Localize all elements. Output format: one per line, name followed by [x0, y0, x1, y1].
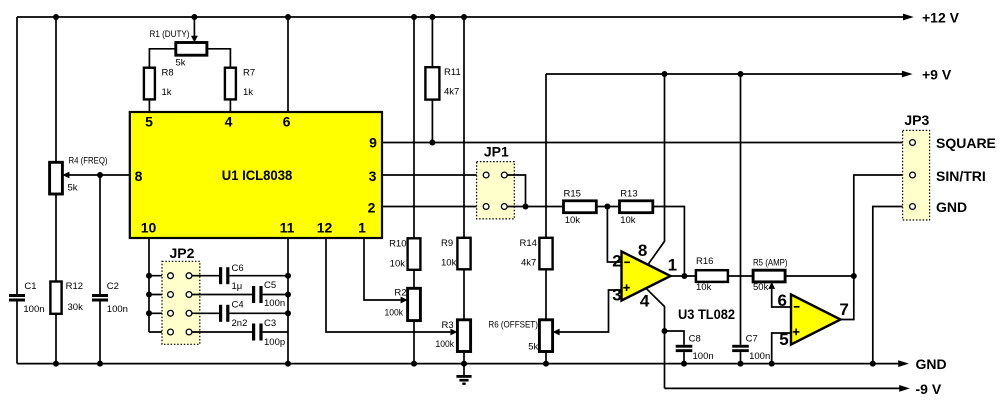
svg-text:2: 2: [368, 199, 376, 215]
svg-text:C7: C7: [746, 334, 758, 345]
node GND R4 junction: [53, 361, 59, 367]
svg-text:C5: C5: [264, 280, 276, 291]
capacitor C7: [732, 345, 749, 348]
wire +9V down to R14 (crosses R15 line): [545, 74, 547, 238]
wire R1 wiper column from +12V: [193, 17, 195, 37]
svg-text:1μ: 1μ: [232, 281, 243, 292]
svg-text:GND: GND: [916, 356, 947, 372]
svg-text:6: 6: [283, 114, 291, 130]
wire R8 to IC pin 5: [148, 99, 150, 112]
wire JP2 row4 left stub: [149, 331, 168, 333]
node pin11 row1: [285, 273, 291, 279]
svg-text:9: 9: [369, 135, 377, 151]
svg-text:10: 10: [141, 219, 157, 235]
svg-text:U1 ICL8038: U1 ICL8038: [222, 167, 293, 183]
svg-text:R12: R12: [66, 281, 83, 292]
svg-text:100n: 100n: [749, 351, 770, 362]
wire +12V to IC pin 6: [287, 17, 289, 112]
svg-text:10k: 10k: [696, 282, 712, 293]
wire R3 bottom to GND rail: [463, 352, 465, 364]
wire op-amp pin 4 down to -9V rail: [646, 288, 665, 388]
potentiometer R3: [457, 320, 470, 352]
svg-text:R4 (FREQ): R4 (FREQ): [69, 156, 108, 167]
node +12V R1 junction: [191, 14, 197, 20]
wire R10 to R2: [413, 270, 415, 289]
svg-text:100k: 100k: [385, 308, 404, 319]
svg-text:R10: R10: [389, 239, 406, 250]
svg-text:100k: 100k: [436, 339, 455, 350]
svg-text:R2: R2: [394, 288, 406, 299]
JP1 pin circles: [483, 172, 507, 209]
IC U1 ICL8038: [130, 112, 382, 238]
node GND R2 junction: [411, 361, 417, 367]
wire JP2 row1 to C6: [192, 275, 219, 277]
potentiometer R4 (FREQ): [50, 162, 63, 194]
svg-text:R1 (DUTY): R1 (DUTY): [150, 29, 190, 40]
svg-text:5k: 5k: [176, 58, 186, 69]
node pin11 row3: [285, 310, 291, 316]
svg-text:R7: R7: [243, 68, 255, 79]
svg-text:SIN/TRI: SIN/TRI: [936, 168, 986, 184]
wire JP3 GND to GND rail: [873, 207, 910, 364]
wire IC pin 10 column: [148, 238, 150, 332]
wire JP1 bottom-right to R15: [507, 206, 563, 208]
capacitor C6: [219, 267, 222, 284]
svg-text:10k: 10k: [620, 215, 636, 226]
wire C5 to pin11 column: [263, 294, 288, 296]
capacitor C2: [92, 294, 108, 297]
+12V arrow: [903, 14, 914, 21]
node pin8/C2 junction: [97, 172, 103, 178]
svg-text:C1: C1: [24, 281, 36, 292]
wire C2 bottom to GND rail: [99, 302, 101, 364]
U3B minus sign: [794, 306, 800, 308]
+9V arrow: [902, 71, 913, 78]
svg-text:R5 (AMP): R5 (AMP): [753, 258, 788, 269]
wire R11 column from +12V: [431, 17, 433, 143]
svg-text:4k7: 4k7: [521, 257, 536, 268]
wire R4 column from +12V to R4 top: [55, 17, 57, 162]
svg-text:C4: C4: [232, 300, 244, 311]
svg-text:100n: 100n: [693, 351, 714, 362]
svg-text:R8: R8: [162, 68, 174, 79]
svg-text:1: 1: [358, 219, 366, 235]
svg-text:2n2: 2n2: [232, 318, 248, 329]
node GND C8 junction: [681, 361, 687, 367]
svg-text:5k: 5k: [68, 183, 78, 194]
node R15/R13 pin2 junction: [604, 204, 610, 210]
resistor R10: [408, 238, 421, 269]
wire JP2 row2 left stub: [149, 294, 168, 296]
node +9V C7 junction: [738, 71, 744, 77]
wire JP2 row3 to C4: [192, 312, 219, 314]
node pin11 row2: [285, 292, 291, 298]
wire R1 right lead to R7: [207, 49, 231, 68]
-9V arrow: [899, 385, 910, 392]
wire C8 to GND rail: [683, 352, 685, 364]
wire +9V down to C7: [740, 74, 742, 345]
capacitor C8: [676, 345, 693, 348]
wire +9V rail: [546, 73, 902, 75]
svg-text:6: 6: [777, 291, 786, 310]
node GND pin11 junction: [285, 361, 291, 367]
JP2 pin circles: [168, 273, 192, 335]
wire -9V rail: [665, 387, 900, 389]
wire R4 wiper to IC pin 8: [69, 174, 131, 176]
svg-text:R13: R13: [620, 189, 637, 200]
svg-text:JP2: JP2: [170, 245, 195, 261]
node GND R6 junction: [543, 361, 549, 367]
svg-text:10k: 10k: [565, 215, 581, 226]
svg-text:30k: 30k: [68, 302, 84, 313]
wire C8 link: [665, 331, 685, 345]
svg-text:12: 12: [317, 219, 333, 235]
node pin4 C8 junction: [662, 328, 668, 334]
wire R14 to R6: [545, 269, 547, 320]
wire JP2 row4 to C3: [192, 331, 252, 333]
resistor R13: [620, 201, 653, 213]
wire left supply rail: [16, 17, 18, 294]
resistor R9: [457, 238, 470, 269]
svg-text:R15: R15: [564, 189, 581, 200]
svg-text:100n: 100n: [107, 304, 128, 315]
wire R4 bottom to GND rail (R12 drawn over): [55, 194, 57, 364]
node GND C2 junction: [97, 361, 103, 367]
resistor R11: [425, 67, 439, 99]
wire JP1 top-right to output row: [507, 175, 525, 207]
svg-text:10k: 10k: [441, 257, 457, 268]
svg-text:100p: 100p: [264, 337, 285, 348]
svg-text:5k: 5k: [528, 342, 538, 353]
svg-text:R3: R3: [442, 320, 454, 331]
wire R9 column from +12V: [463, 17, 465, 238]
svg-text:10k: 10k: [390, 259, 406, 270]
U3A plus sign: [623, 284, 630, 291]
resistor R12: [50, 282, 61, 314]
U3B plus sign: [793, 329, 800, 336]
op-amp U3A: [622, 252, 671, 301]
svg-text:4: 4: [640, 291, 650, 310]
capacitor C3: [252, 324, 255, 341]
svg-text:JP1: JP1: [484, 144, 509, 160]
potentiometer R6 (OFFSET): [539, 320, 552, 352]
wire R2 bottom to GND rail: [413, 321, 415, 364]
node R11 to square line: [429, 140, 435, 146]
node +12V R11 junction: [429, 14, 435, 20]
node R5 output junction: [851, 273, 857, 279]
wire C7 to GND rail: [740, 352, 742, 364]
svg-text:2: 2: [612, 251, 621, 270]
GND arrow: [898, 360, 909, 367]
R2 wiper arrow: [401, 297, 408, 304]
svg-text:1k: 1k: [162, 87, 172, 98]
wire R10 column from +12V: [413, 17, 415, 238]
wire JP2 row1 left stub: [149, 275, 168, 277]
svg-text:50k: 50k: [753, 282, 769, 293]
R6 wiper arrow: [553, 329, 560, 336]
wire op-amp1 output to R16: [671, 275, 696, 277]
R5 wiper arrow: [768, 282, 775, 289]
svg-text:C3: C3: [264, 318, 276, 329]
svg-text:R14: R14: [520, 238, 537, 249]
svg-text:C6: C6: [232, 263, 244, 274]
svg-text:8: 8: [135, 168, 143, 184]
node +12V R10 junction: [411, 14, 417, 20]
JP3 pin circles: [910, 140, 916, 210]
svg-text:5: 5: [145, 114, 153, 130]
wire IC pin 3 to JP1: [382, 174, 483, 176]
svg-text:100n: 100n: [264, 298, 285, 309]
wire C3 to pin11 column: [263, 331, 288, 333]
wire JP2 row2 to C5: [192, 294, 252, 296]
wire junction down to op-amp pin 2: [607, 207, 621, 263]
U3A minus sign: [624, 261, 630, 263]
capacitor C5: [252, 286, 255, 303]
node GND C7 junction: [738, 361, 744, 367]
connector JP3: [903, 130, 930, 220]
svg-text:GND: GND: [936, 199, 967, 215]
node GND pin5 junction: [769, 361, 775, 367]
svg-text:R6 (OFFSET): R6 (OFFSET): [488, 320, 538, 331]
wire IC pin 1 to R2 wiper: [364, 238, 401, 300]
svg-text:3: 3: [612, 285, 621, 304]
wire C4 to pin11 column: [229, 312, 288, 314]
wire IC pin 9 to JP3 SQUARE: [382, 142, 909, 144]
R1 wiper arrow: [191, 36, 198, 43]
node JP1 output junction: [523, 204, 529, 210]
node pin10 row3: [146, 310, 152, 316]
resistor R8: [144, 68, 155, 100]
wire C2 column: [99, 175, 101, 294]
wire R5 right to output2 column: [785, 275, 854, 277]
wire R6 bottom to GND rail: [545, 352, 547, 364]
svg-text:8: 8: [638, 241, 647, 260]
node pin10 row1: [146, 273, 152, 279]
wire R5 wiper to op-amp pin 6: [772, 288, 791, 307]
potentiometer R2: [408, 288, 421, 320]
svg-text:R16: R16: [696, 256, 713, 267]
capacitor C1: [9, 294, 25, 297]
capacitor C4: [219, 305, 222, 322]
svg-text:3: 3: [369, 168, 377, 184]
svg-text:C8: C8: [689, 334, 701, 345]
wire +12V rail: [17, 16, 904, 18]
svg-text:U3 TL082: U3 TL082: [678, 307, 735, 322]
svg-text:R11: R11: [444, 67, 461, 78]
connector JP2: [162, 261, 200, 344]
svg-text:7: 7: [839, 300, 848, 319]
R3 wiper arrow: [450, 329, 457, 336]
wire GND rail: [17, 363, 899, 365]
svg-text:11: 11: [280, 219, 295, 235]
wire R16 to R5: [728, 275, 753, 277]
wire R15 to R13: [596, 206, 619, 208]
wire +9V down to op-amp pin 8: [648, 74, 665, 265]
wire R1 left lead to R8: [149, 49, 175, 68]
resistor R16: [696, 270, 728, 282]
wire R6 wiper to op-amp pin 3: [559, 290, 622, 332]
svg-text:4: 4: [225, 114, 233, 130]
svg-text:R9: R9: [441, 238, 453, 249]
ground symbol: [456, 364, 471, 385]
wire IC pin 2 to JP1: [382, 206, 483, 208]
resistor R7: [225, 68, 236, 100]
node pin10 row2: [146, 292, 152, 298]
node output1 junction: [681, 273, 687, 279]
svg-text:100n: 100n: [23, 304, 44, 315]
wire C6 to pin11 column: [229, 275, 288, 277]
node +9V pin8 junction: [662, 71, 668, 77]
wire JP2 row3 left stub: [149, 312, 168, 314]
wire left rail below C1: [16, 302, 18, 364]
resistor R14: [539, 238, 552, 269]
wire op-amp2 output up to JP3 SIN/TRI: [841, 175, 910, 320]
node +12V R4 junction: [53, 14, 59, 20]
wire op-amp pin 5 to GND rail: [772, 333, 791, 364]
node +12V R9 junction: [461, 14, 467, 20]
potentiometer R1 (DUTY): [176, 43, 207, 56]
connector JP1: [477, 162, 515, 219]
resistor R15: [564, 201, 597, 213]
svg-text:1: 1: [668, 256, 677, 275]
svg-text:SQUARE: SQUARE: [936, 135, 996, 151]
svg-text:+9 V: +9 V: [922, 67, 952, 83]
wire IC pin 12 to R3 wiper: [326, 238, 450, 332]
node +12V pin6 junction: [285, 14, 291, 20]
svg-text:C2: C2: [107, 281, 119, 292]
svg-text:-9 V: -9 V: [916, 381, 942, 397]
op-amp U3B: [791, 295, 841, 345]
svg-text:1k: 1k: [243, 87, 253, 98]
wire R9 to R3: [463, 269, 465, 320]
svg-text:4k7: 4k7: [444, 87, 459, 98]
R4 wiper arrow: [62, 172, 69, 179]
svg-text:JP3: JP3: [904, 112, 929, 128]
node GND JP3 junction: [870, 361, 876, 367]
node GND R3 junction: [461, 361, 467, 367]
wire R7 to IC pin 4: [229, 99, 231, 112]
svg-text:5: 5: [779, 330, 788, 349]
potentiometer R5 (AMP): [753, 270, 785, 282]
wire IC pin 11 column to GND rail: [287, 238, 289, 364]
svg-text:+12 V: +12 V: [922, 10, 960, 26]
wire R13 feedback to output node: [653, 207, 685, 277]
